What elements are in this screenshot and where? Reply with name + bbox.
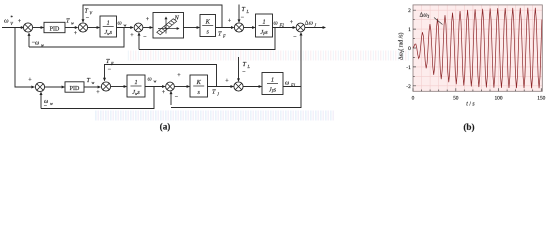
svg-text:ω: ω [4,18,9,25]
svg-text:F: F [110,61,114,66]
svg-text:w: w [92,80,95,85]
svg-text:ω: ω [148,77,152,83]
svg-text:2: 2 [408,8,411,14]
svg-text:1: 1 [134,79,137,86]
svg-text:T: T [66,18,70,25]
svg-text:T: T [212,89,216,96]
svg-text:ω: ω [35,41,39,47]
svg-text:PID: PID [70,86,80,92]
svg-text:T: T [85,8,89,15]
svg-text:w: w [50,101,53,106]
svg-text:F: F [222,34,226,39]
svg-text:K: K [205,18,211,25]
svg-text:50: 50 [453,96,459,102]
svg-text:(b): (b) [463,122,474,132]
svg-text:N: N [174,15,180,22]
svg-text:T: T [87,77,91,84]
svg-text:100: 100 [494,96,502,102]
svg-text:T: T [242,6,246,13]
svg-text:1: 1 [408,27,411,33]
svg-text:1: 1 [271,76,274,83]
svg-text:ω: ω [285,81,289,87]
svg-text:ω: ω [274,21,278,27]
svg-text:1: 1 [107,19,110,26]
svg-text:150: 150 [537,96,545,102]
svg-text:ΔωJ: ΔωJ [420,13,430,20]
svg-text:V: V [10,21,13,26]
svg-text:V: V [90,11,93,16]
svg-text:0: 0 [408,46,411,52]
svg-text:ω: ω [309,21,313,27]
svg-text:JFs: JFs [269,86,277,93]
svg-text:w: w [124,23,127,28]
svg-text:PID: PID [50,26,60,32]
svg-text:w: w [154,79,157,84]
svg-text:t / s: t / s [466,102,475,108]
svg-text:T: T [243,61,247,68]
svg-text:F2: F2 [279,23,285,28]
svg-text:K: K [196,79,202,86]
svg-text:0: 0 [412,96,415,102]
svg-text:-1: -1 [406,65,411,71]
svg-text:T: T [218,31,222,38]
svg-text:(a): (a) [160,122,171,132]
svg-text:w: w [71,21,74,26]
svg-text:ω: ω [118,21,122,27]
svg-text:T: T [106,58,110,65]
svg-text:1: 1 [262,18,265,25]
svg-text:-2: -2 [406,84,411,90]
svg-text:JFs: JFs [260,29,268,36]
svg-text:ΔωJ( rad /s): ΔωJ( rad /s) [398,33,406,60]
